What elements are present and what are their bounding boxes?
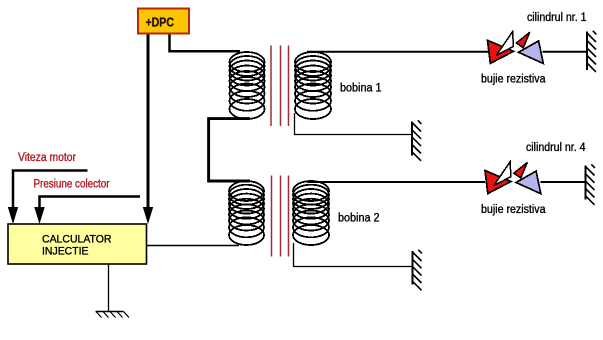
transformer T1 primary coil (230, 52, 265, 119)
power supply box +DPC (138, 9, 189, 34)
arrow A1 into calculator (8, 207, 18, 224)
label bujie rezistiva E2 (481, 204, 546, 216)
arrow A2 into calculator (34, 207, 44, 224)
svg-text:bujie rezistiva: bujie rezistiva (481, 74, 546, 86)
label cilindrul nr. 1 (527, 12, 587, 24)
ground G1 top right (587, 31, 596, 72)
svg-text:bobina 2: bobina 2 (338, 213, 380, 225)
svg-text:Viteza motor: Viteza motor (18, 152, 76, 164)
calculator injectie box U1 (8, 224, 147, 264)
svg-text:INJECTIE: INJECTIE (42, 246, 89, 258)
ground G5 below calculator (96, 312, 130, 318)
wire W2 from +DPC to T1 primary top (170, 33, 241, 51)
transformer T2 secondary coil (293, 181, 329, 245)
wire W11 calculator to ground G5 (108, 264, 110, 312)
wire W4 calculator to T2 primary bottom (147, 245, 240, 247)
transformer T2 primary coil (229, 181, 264, 245)
svg-text:+DPC: +DPC (146, 16, 175, 30)
label cilindrul nr. 4 (526, 142, 586, 154)
label bujie rezistiva E1 (481, 74, 546, 86)
wire W3 from T1 primary bottom to T2 primary top (209, 119, 250, 181)
spark plug E2 (485, 162, 541, 194)
label Presiune colector (34, 179, 110, 191)
svg-text:bobina 1: bobina 1 (340, 83, 382, 95)
ground G2 right row2 (586, 164, 595, 205)
svg-text:Presiune colector: Presiune colector (34, 179, 110, 191)
label bobina 2 (338, 213, 380, 225)
wire W9 T2 secondary bottom to ground G4 (294, 243, 413, 267)
label bobina 1 (340, 83, 382, 95)
transformer T2 core (272, 176, 289, 257)
wire W1 from +DPC to calculator arrow (147, 33, 150, 208)
svg-text:CALCULATOR: CALCULATOR (42, 234, 112, 246)
wire W5 T1 secondary top to spark plug E1 (307, 51, 488, 53)
transformer T1 core (271, 46, 289, 127)
wire W8 T2 secondary top to spark plug E2 (307, 181, 485, 183)
label Viteza motor (18, 152, 76, 164)
arrow A3 into calculator (143, 207, 153, 224)
wire W10 spark plug E2 to ground G2 (541, 181, 586, 183)
ground G3 middle top (412, 120, 421, 161)
wire W6 T1 secondary bottom to ground G3 (295, 113, 413, 135)
wire W12 viteza motor input (13, 171, 88, 209)
wire W7 spark plug E1 to ground G1 (543, 51, 588, 53)
ground G4 middle bottom (413, 250, 422, 290)
transformer T1 secondary coil (295, 52, 331, 119)
svg-text:cilindrul nr. 1: cilindrul nr. 1 (527, 12, 587, 24)
svg-text:bujie rezistiva: bujie rezistiva (481, 204, 546, 216)
spark plug E1 (488, 32, 544, 64)
wire W13 presiune colector input (40, 197, 141, 209)
svg-text:cilindrul nr. 4: cilindrul nr. 4 (526, 142, 586, 154)
